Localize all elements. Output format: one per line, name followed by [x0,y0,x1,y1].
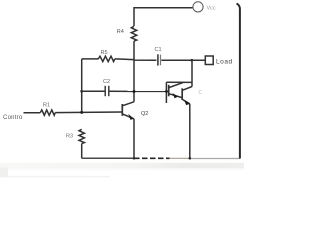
svg-text:Q2: Q2 [141,111,148,117]
transistor Q3 emitter [183,100,190,104]
Vcc terminal circle [193,2,203,12]
resistor R5 [98,56,115,61]
wire R5 right to node [115,59,157,60]
wire top rail Vcc [134,8,193,26]
transistor Q2 base bar [121,104,123,116]
transistor Q3 base bar [181,88,183,100]
svg-text:R4: R4 [117,29,124,35]
svg-text:R1: R1 [43,102,50,108]
node C2 tee [80,90,83,93]
darlington outer vertical [165,82,167,103]
node darlington base [165,90,168,93]
wire Q3 emitter to ground [189,104,191,159]
transistor Q2 collector [122,102,134,106]
wire Q2 emitter to ground [133,119,135,159]
svg-text:C: C [199,90,203,96]
svg-text:C2: C2 [103,79,110,85]
resistor R4 [131,26,136,41]
wire C2 right to Darlington base [109,90,169,92]
svg-text:Load: Load [216,59,233,66]
wire left feedback vertical [81,59,83,112]
transistor Q2 emitter [122,114,134,119]
transistor Q3 collector [183,87,192,91]
node base junction [80,111,83,114]
transistor Q3 emitter arrowhead [184,100,190,106]
wire control input [24,112,41,114]
transistor Q1 base bar [168,85,170,97]
node Q3 emitter ground [189,157,192,160]
node main vertical / C2 wire [133,90,136,93]
ground rail [82,157,134,159]
wire C1 to Load [161,59,205,61]
svg-text:Vcc: Vcc [207,6,216,12]
node Q2 emitter ground [133,157,136,160]
transistor Q1 emitter [169,94,182,98]
load box [205,56,213,65]
svg-text:R3: R3 [66,134,73,140]
wire R1 to base node [55,111,122,114]
wire R4 bottom to Q2 collector [133,41,135,102]
svg-text:R5: R5 [101,50,108,56]
wire R3 bottom [81,144,83,159]
wire R5 level horizontal [82,58,99,60]
transistor Q2 emitter arrowhead [128,114,134,120]
darlington top horizontal [166,81,192,83]
node junction C1/load/collector [190,59,193,62]
resistor R1 [40,110,55,115]
svg-text:C1: C1 [155,47,162,53]
frame right edge [237,4,240,159]
darlington collector riser [191,60,193,86]
transistor Q1 emitter arrowhead [173,93,179,98]
capacitor C2 [104,86,106,96]
capacitor C1 [157,54,159,65]
transistor Q1 collector [169,83,183,88]
wire C2 left [82,90,106,92]
svg-text:Contro: Contro [3,115,23,121]
resistor R3 [79,129,84,143]
